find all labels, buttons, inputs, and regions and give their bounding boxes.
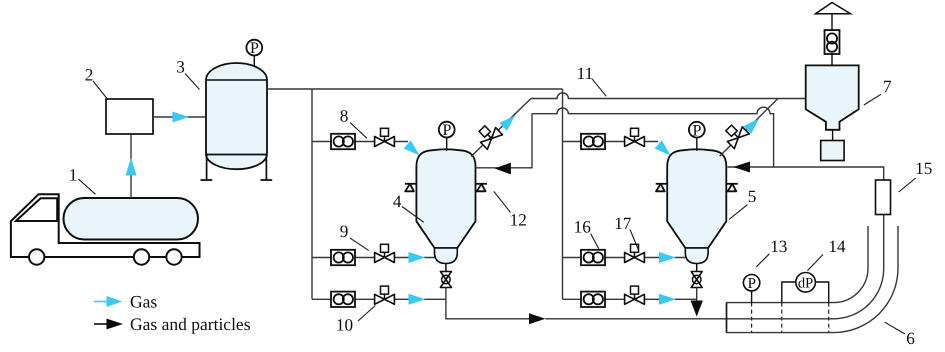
valve line8: [375, 128, 395, 146]
flow meter line10: [331, 292, 355, 307]
hopper 5 P gauge: [696, 138, 698, 151]
gas arrow vent4: [499, 112, 519, 131]
gas arrow line10: [409, 294, 426, 305]
wire tank to box2: [130, 134, 132, 198]
hopper 5 discharge ball valve: [691, 264, 702, 288]
svg-text:6: 6: [906, 329, 915, 348]
conveying arrow right: [529, 313, 546, 324]
svg-text:14: 14: [828, 237, 846, 256]
vessel 3 seams: [206, 79, 267, 81]
return line into hopper4: [476, 114, 533, 168]
hopper 4 level sensor right: [476, 184, 488, 192]
truck 1 chassis: [11, 194, 200, 257]
feed line hopper5 bottom: [563, 298, 697, 300]
dP bracket 14: [782, 282, 829, 303]
valve line17: [625, 244, 645, 262]
svg-text:2: 2: [85, 65, 94, 84]
svg-text:P: P: [748, 276, 756, 292]
truck wheel rear2: [166, 249, 181, 264]
legend gas arrow: [94, 301, 107, 303]
valve line16: [625, 128, 645, 146]
return line into hopper5: [728, 167, 884, 180]
flow meter line b5: [581, 292, 605, 307]
svg-text:11: 11: [577, 64, 594, 83]
svg-text:P: P: [693, 122, 702, 139]
hopper 4 vent diagonal: [471, 99, 531, 157]
hopper 4 vent valve: [474, 121, 502, 149]
hopper 4 body: [416, 149, 475, 248]
svg-text:9: 9: [340, 222, 349, 241]
filter 7 blower: [825, 30, 840, 54]
hopper 5 discharge line: [696, 288, 698, 303]
compressor box 2: [106, 99, 153, 134]
return arrow hopper5: [733, 162, 750, 173]
truck tank: [64, 198, 199, 240]
header 1: [311, 89, 313, 299]
valve line9: [375, 244, 395, 262]
filter 7 stem2: [831, 54, 833, 65]
svg-text:10: 10: [336, 316, 353, 335]
svg-text:1: 1: [69, 166, 78, 185]
gas arrow vent5: [743, 115, 762, 134]
feed line 8 (hopper4 top): [312, 141, 408, 143]
feed line 17 (hopper5 mid): [563, 257, 686, 259]
feed line 10 (hopper4 bottom): [312, 298, 446, 300]
wire box2 to vessel3: [153, 116, 206, 118]
truck window: [16, 198, 57, 221]
hopper 4 level sensor left: [405, 184, 417, 192]
pipe 6 outer wall: [726, 226, 898, 333]
gas arrow line16: [654, 139, 675, 161]
hopper 5 level sensor left: [656, 184, 668, 192]
feed line 16 (hopper5 top): [563, 141, 659, 143]
hopper 4 discharge line: [446, 288, 529, 319]
filter 7 stem3: [832, 130, 834, 141]
conveying line to pipe6: [546, 215, 884, 319]
valve line b5: [625, 286, 645, 304]
svg-text:dP: dP: [798, 275, 813, 291]
gas arrow up: [126, 158, 137, 176]
flow meter line8: [331, 134, 355, 149]
svg-text:Gas: Gas: [130, 292, 157, 312]
truck wheel front: [29, 249, 44, 264]
filter 7 body: [806, 65, 859, 129]
hopper 5 vent valve: [721, 121, 749, 149]
valve line10: [375, 286, 395, 304]
filter 7 stem1: [831, 14, 833, 30]
header 2: [562, 89, 564, 299]
hopper 4 discharge ball valve: [440, 264, 451, 288]
filter 7 roof: [816, 3, 851, 14]
svg-text:5: 5: [748, 187, 757, 206]
tap dashed 14b: [828, 303, 830, 333]
svg-text:3: 3: [176, 58, 185, 77]
flow meter line9: [331, 250, 355, 265]
discharge arrow down: [691, 301, 703, 317]
wire vessel3 right main: [267, 88, 563, 90]
truck wheel rear1: [134, 249, 149, 264]
gas arrow line9: [409, 252, 426, 263]
vessel 3: [206, 63, 267, 169]
hopper 4 outlet cup: [435, 248, 458, 264]
pipe 6 end cap: [726, 303, 728, 333]
svg-text:P: P: [442, 122, 451, 139]
tap dashed 14a: [781, 303, 783, 333]
svg-text:17: 17: [614, 214, 632, 233]
svg-text:16: 16: [574, 218, 592, 237]
feed line 9 (hopper4 mid): [312, 257, 435, 259]
P gauge 13: [751, 291, 753, 303]
gas arrow line17: [659, 252, 676, 263]
hopper 5 outlet cup: [685, 248, 708, 264]
vessel 3 legs: [201, 155, 273, 180]
flow meter line16: [581, 134, 605, 149]
hopper 5 level sensor right: [726, 184, 738, 192]
svg-text:8: 8: [340, 106, 349, 125]
filter 15: [876, 180, 891, 215]
hopper 5 vent diagonal: [720, 99, 778, 157]
svg-text:12: 12: [510, 211, 527, 230]
flow meter line17: [581, 250, 605, 265]
vent line 11: [531, 93, 806, 99]
svg-text:P: P: [250, 40, 259, 57]
return arrow hopper4: [495, 163, 511, 175]
filter 7 rotary valve: [821, 141, 844, 161]
gas arrow right: [173, 112, 190, 123]
svg-text:Gas and particles: Gas and particles: [130, 314, 251, 334]
return line top (line2): [532, 107, 774, 167]
tap dashed 13: [751, 303, 753, 333]
svg-text:4: 4: [393, 192, 402, 211]
gas arrow line b5: [659, 294, 676, 305]
vessel 3 P gauge: [253, 55, 255, 66]
hopper 4 P gauge: [446, 138, 448, 151]
svg-text:15: 15: [915, 159, 932, 178]
hopper 5 body: [667, 149, 726, 248]
svg-text:13: 13: [770, 237, 787, 256]
svg-text:7: 7: [883, 77, 892, 96]
legend particles arrow: [94, 323, 107, 325]
pipe 6 inner wall: [726, 226, 868, 303]
gas arrow line8: [403, 139, 424, 161]
